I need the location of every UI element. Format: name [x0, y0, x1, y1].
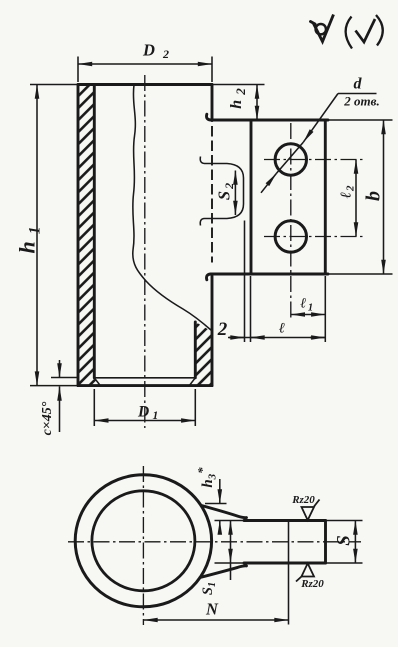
c x 45 dimension — [51, 377, 77, 379]
cylinder top edge — [78, 83, 212, 86]
top edge extension left (h1) — [30, 84, 78, 86]
chamfer diagonal left — [94, 378, 100, 386]
Rz20 bottom roughness mark — [296, 563, 324, 590]
arm top edge extension left — [215, 520, 246, 522]
svg-text:b: b — [363, 191, 385, 201]
svg-text:D: D — [137, 404, 149, 421]
cylinder outer right edge top segment — [211, 85, 214, 121]
extension line plate left face — [250, 276, 252, 342]
bottom edge extension left (h1, c) — [30, 385, 78, 387]
svg-text:Rz20: Rz20 — [291, 494, 315, 506]
hole 1 horizontal centerline — [264, 159, 364, 161]
svg-text:1: 1 — [153, 410, 159, 422]
plate right edge — [324, 120, 327, 274]
arm top edge — [244, 519, 326, 522]
hole leader: upper arrow segment — [303, 94, 338, 143]
l1 dimension — [291, 314, 326, 316]
S1 dimension — [230, 521, 232, 564]
svg-text:N: N — [205, 600, 219, 619]
extension line rib face — [244, 221, 246, 343]
hatching left wall — [79, 86, 100, 385]
D2 dimension — [77, 57, 79, 83]
cylinder outer left edge — [77, 85, 80, 386]
hole 2 (lower) — [275, 221, 306, 252]
cylinder outer right edge hidden behind plate (dashed) — [211, 126, 213, 263]
svg-text:Rz20: Rz20 — [300, 578, 324, 590]
cylinder outer right edge lower segment — [211, 276, 214, 386]
svg-text:2: 2 — [162, 47, 169, 61]
hole leader: lower arrow segment — [261, 174, 276, 193]
arm bottom draft slant — [200, 566, 247, 578]
svg-text:d: d — [354, 76, 363, 93]
arm right end — [324, 521, 327, 564]
hole 2 horizontal centerline — [264, 236, 364, 238]
dimension line 2 and l — [228, 337, 325, 339]
hole label underline — [338, 93, 377, 95]
chamfer edge line across bore — [94, 377, 195, 379]
arm top draft slant — [202, 506, 247, 518]
cylinder bottom edge — [78, 384, 212, 387]
chamfer diagonal right — [189, 378, 195, 386]
holes vertical centerline — [290, 123, 292, 319]
extension line plate right face — [324, 276, 326, 342]
plate left edge — [250, 120, 253, 274]
b dimension — [383, 120, 385, 274]
cylinder axis centerline — [144, 75, 146, 428]
S dimension — [354, 521, 356, 564]
h1 dimension — [36, 85, 38, 386]
l2 dimension — [355, 160, 357, 237]
cylinder bore left edge — [93, 85, 96, 378]
svg-text:2: 2 — [217, 319, 228, 340]
hole leader: chord through hole — [276, 142, 303, 174]
svg-text:2 отв.: 2 отв. — [343, 94, 379, 109]
D1 dimension — [93, 389, 95, 426]
svg-text:S: S — [334, 535, 355, 546]
S2 dimension — [234, 171, 236, 216]
h3 extension line — [205, 503, 227, 505]
plate bottom edge with break hook — [206, 274, 328, 280]
hole 1 (upper) — [275, 144, 306, 175]
arm bottom edge — [244, 562, 326, 565]
horizontal centerline — [68, 541, 361, 543]
cylinder bore right edge (below break) — [194, 322, 197, 378]
vertical centerline — [142, 466, 144, 625]
plate top edge with break hook — [206, 114, 328, 120]
outer circle — [75, 475, 211, 607]
svg-text:c×45°: c×45° — [40, 401, 55, 435]
arm transverse line / N extension — [288, 520, 290, 625]
svg-text:D: D — [142, 41, 155, 60]
freehand break line — [133, 85, 212, 331]
hatching right wall below break line — [190, 323, 211, 386]
Rz20 top roughness mark — [291, 494, 319, 520]
rib section tongue S2 — [200, 157, 243, 226]
N dimension — [144, 619, 289, 621]
h2 dimension — [256, 85, 258, 121]
arm bottom edge extension left — [215, 562, 246, 564]
inner circle — [92, 491, 195, 591]
svg-text:ℓ: ℓ — [279, 321, 285, 337]
roughness checkmark in parentheses (top right) — [346, 15, 383, 49]
roughness symbol with circle (top right) — [311, 15, 334, 42]
top edge extension right (h2) — [212, 84, 265, 86]
h3 dimension arrows — [219, 479, 221, 504]
